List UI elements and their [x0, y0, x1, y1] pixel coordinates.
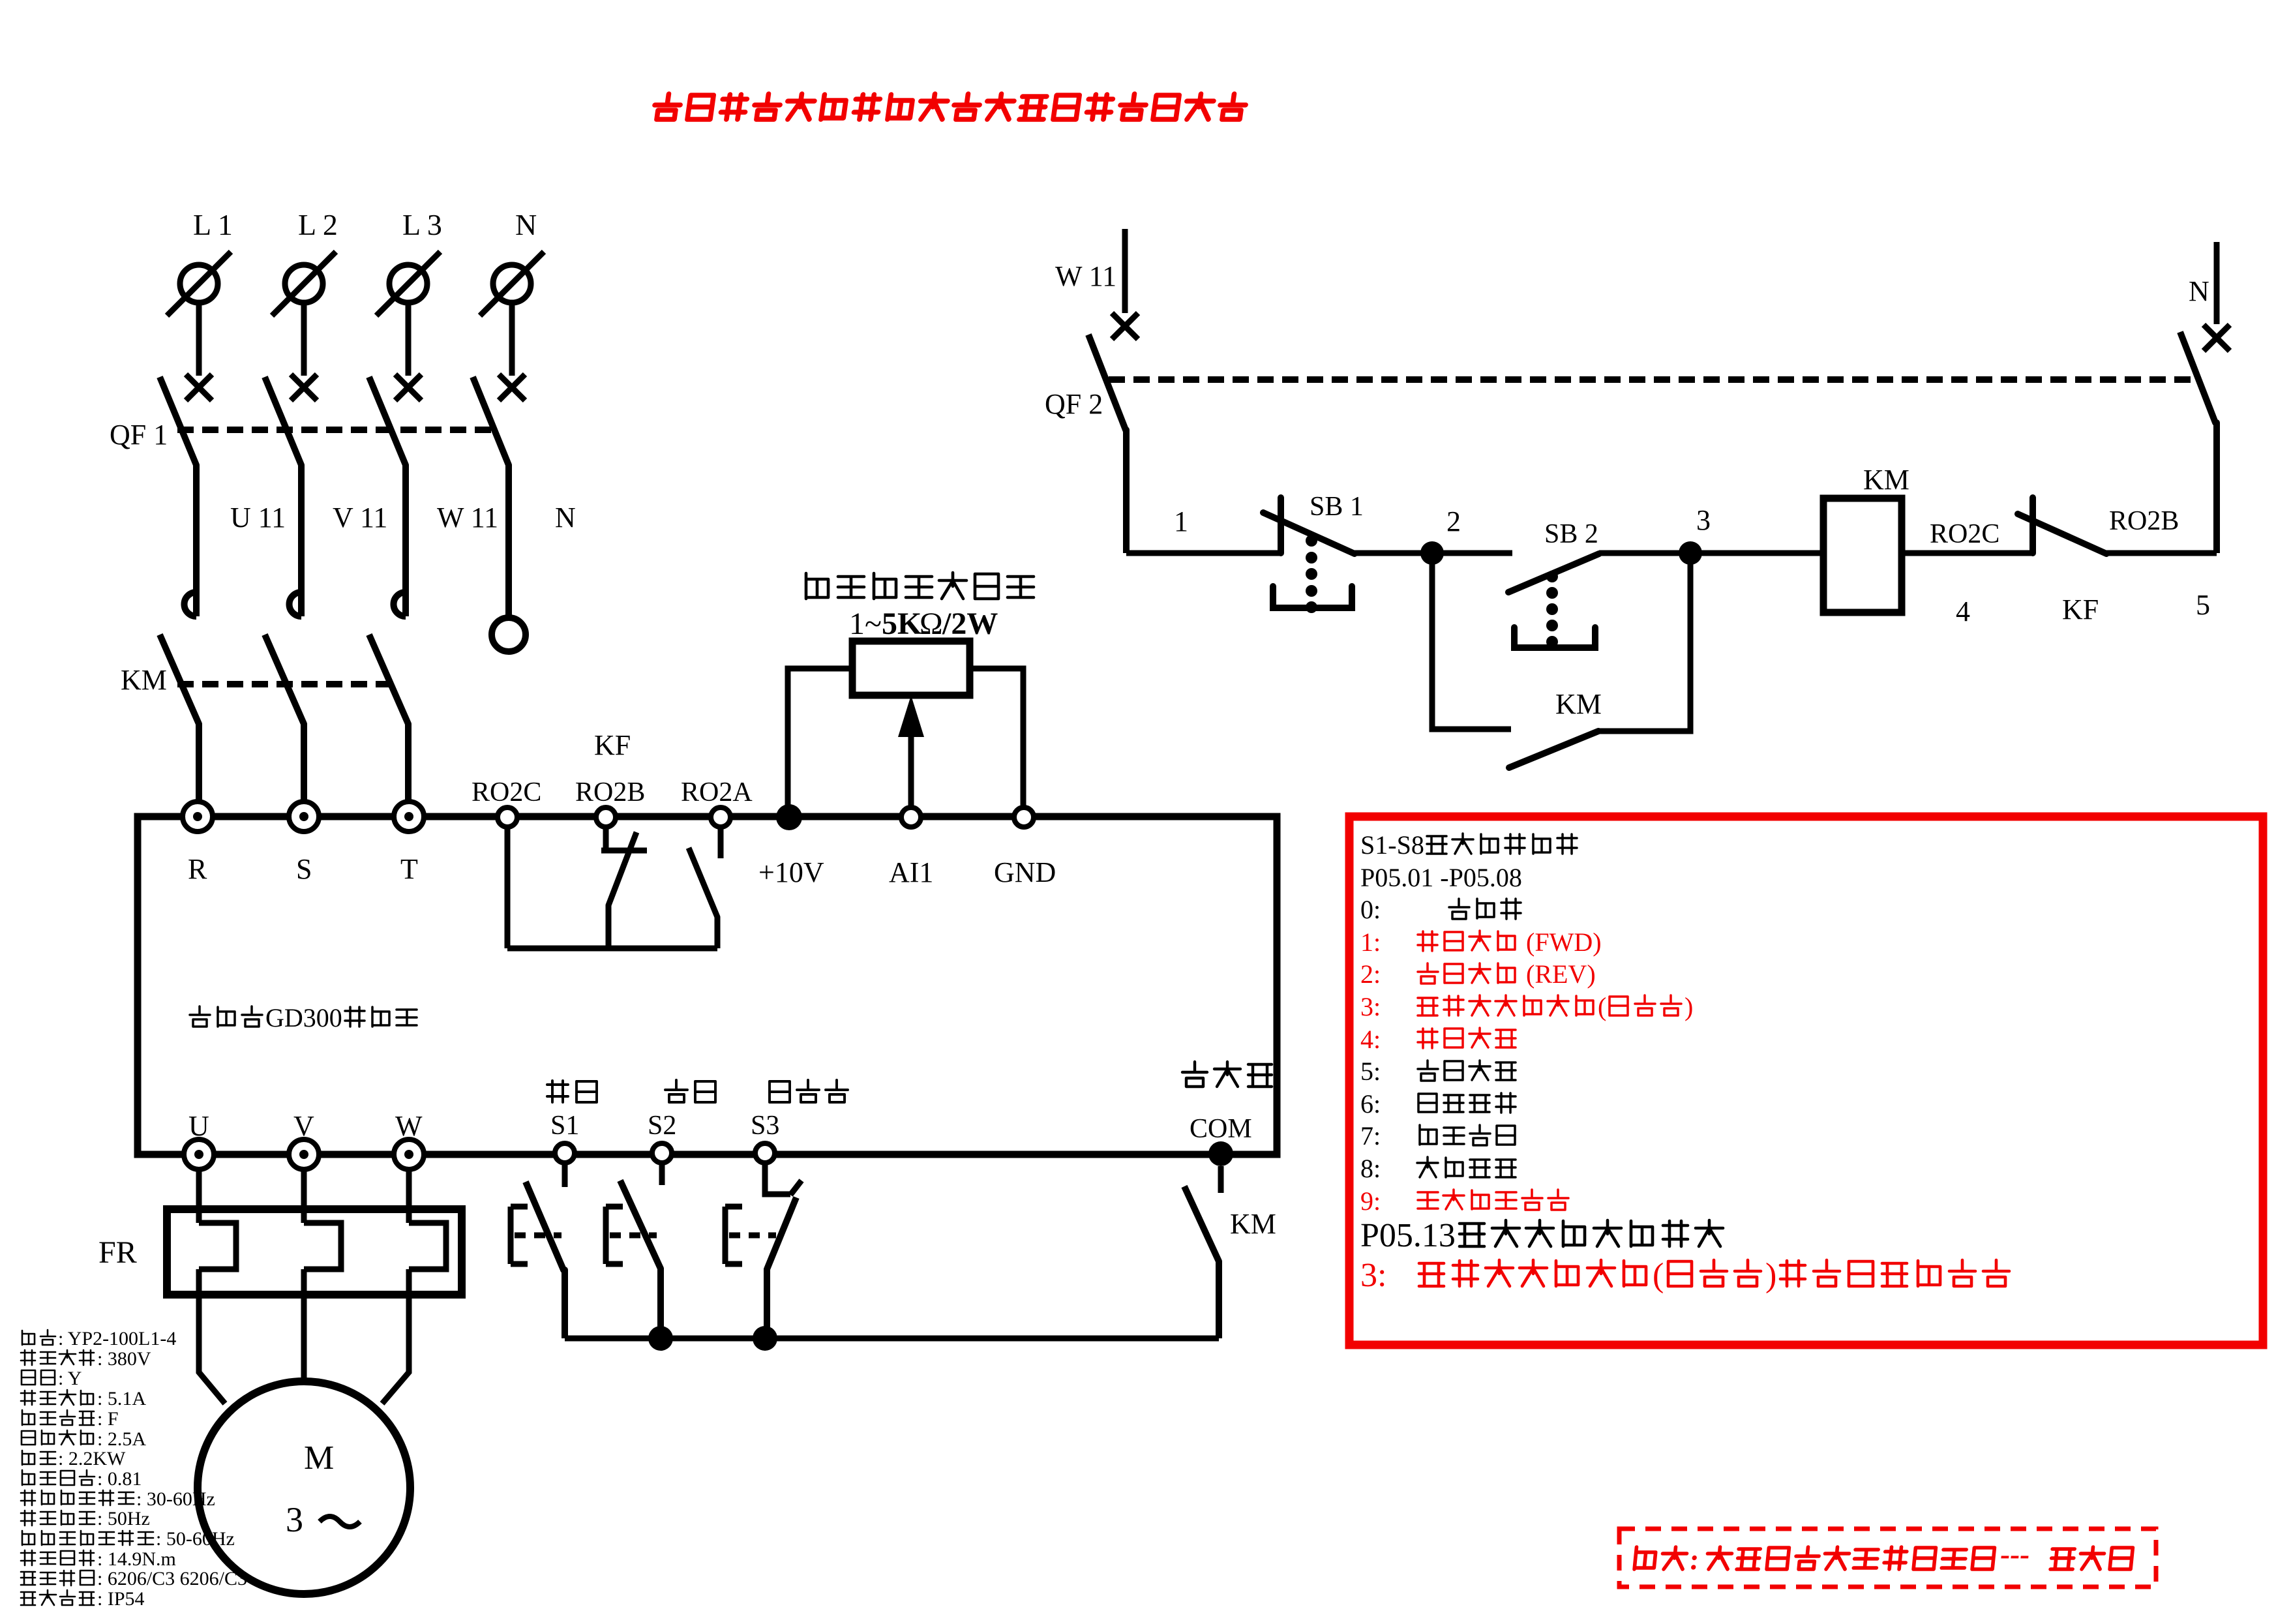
relay KF contact RO2C common [505, 827, 511, 948]
svg-text:: 380V: : 380V [97, 1348, 151, 1370]
svg-text:N: N [2189, 275, 2209, 307]
svg-text:QF 1: QF 1 [110, 419, 168, 451]
svg-text:T: T [400, 853, 418, 885]
svg-text:7:: 7: [1360, 1121, 1381, 1150]
wire KM aux to node3 [1598, 553, 1690, 731]
relay KF contact RO2A NO [718, 827, 724, 858]
svg-text:5: 5 [2196, 589, 2210, 621]
node 3 [1679, 541, 1702, 565]
wire N drop [509, 303, 515, 376]
svg-text:S1-S8: S1-S8 [1360, 830, 1424, 860]
svg-text:RO2A: RO2A [681, 777, 753, 807]
pot wiper arrow [908, 736, 914, 809]
svg-text:): ) [1685, 992, 1693, 1021]
red note box S1-S8 端子功能选择 [1349, 817, 2263, 1345]
wire V to motor [301, 1269, 307, 1381]
svg-text:1: 1 [1174, 505, 1188, 537]
QF1 linkage dashed [177, 427, 499, 433]
svg-text:U: U [188, 1110, 209, 1142]
pot right wire [970, 669, 1023, 809]
svg-text:KM: KM [1863, 464, 1909, 496]
potentiometer 频率设定电位器 [806, 573, 1034, 599]
svg-text:SB 1: SB 1 [1310, 492, 1364, 522]
QF1 pole hook 3 [394, 592, 406, 616]
svg-text:P05.01 -P05.08: P05.01 -P05.08 [1360, 863, 1522, 892]
terminal RO2A [711, 807, 730, 827]
switch S1 contact 正转 [562, 1162, 568, 1187]
svg-text:5:: 5: [1360, 1057, 1381, 1086]
QF1 pole hook 2 [290, 592, 302, 616]
svg-text:RO2B: RO2B [575, 777, 645, 807]
svg-text:4:: 4: [1360, 1025, 1381, 1054]
wire node3 to coil [1690, 550, 1823, 556]
wire L 3 drop [406, 303, 412, 376]
svg-text:M: M [304, 1439, 334, 1477]
terminal R [183, 802, 213, 832]
svg-text:+10V: +10V [758, 856, 824, 888]
svg-text:SB 2: SB 2 [1544, 519, 1598, 549]
terminal S2 [652, 1143, 672, 1163]
svg-text:RO2B: RO2B [2109, 506, 2179, 536]
svg-text:3: 3 [1696, 504, 1711, 536]
svg-text:: YP2-100L1-4: : YP2-100L1-4 [58, 1328, 176, 1349]
svg-text:L 1: L 1 [193, 208, 233, 241]
svg-text:1~: 1~ [849, 607, 882, 641]
svg-text:2:: 2: [1360, 959, 1381, 989]
svg-text:KM: KM [121, 664, 167, 696]
node 2 [1420, 541, 1444, 565]
svg-text:4: 4 [1956, 595, 1970, 627]
svg-text:: 2.5A: : 2.5A [97, 1428, 146, 1450]
svg-text:KF: KF [2062, 594, 2099, 625]
svg-text:COM: COM [1190, 1114, 1252, 1144]
svg-text:GND: GND [994, 856, 1056, 888]
motor M 3~ [198, 1381, 410, 1594]
wire L 1 drop [196, 303, 202, 376]
neutral socket circle [492, 618, 526, 652]
title 旋转开关控制变频调速电动机正反转电路 [653, 94, 1247, 119]
svg-text:N: N [515, 208, 537, 241]
svg-text:: 50Hz: : 50Hz [97, 1508, 150, 1529]
svg-text:: 2.2KW: : 2.2KW [58, 1448, 126, 1469]
svg-text:W 11: W 11 [1055, 260, 1116, 292]
svg-text:GD300: GD300 [265, 1003, 342, 1032]
wire SB2 to node3 [1599, 550, 1690, 556]
svg-text:QF 2: QF 2 [1045, 388, 1103, 420]
pot resistor body [852, 641, 970, 695]
svg-text:): ) [1765, 1257, 1776, 1294]
svg-text:: 14.9N.m: : 14.9N.m [97, 1548, 176, 1570]
svg-text:KF: KF [594, 729, 631, 761]
contact KF RO2C-RO2B NC [2029, 498, 2036, 553]
node S2 bottom [648, 1326, 673, 1351]
inverter box 英威腾GD300变频器 [138, 817, 1277, 1154]
QF1 contact X L 2 [291, 374, 317, 400]
svg-text:: 5.1A: : 5.1A [97, 1388, 146, 1409]
svg-text:(REV): (REV) [1520, 959, 1596, 989]
wire U to motor [199, 1269, 225, 1404]
svg-text:: 0.81: : 0.81 [97, 1468, 142, 1490]
terminal AI1 [901, 807, 921, 827]
terminal T [394, 802, 424, 832]
svg-text:KM: KM [1230, 1208, 1276, 1240]
svg-text:R: R [188, 853, 207, 885]
svg-text:8:: 8: [1360, 1154, 1381, 1183]
svg-text:V 11: V 11 [333, 502, 387, 534]
terminal +10V [776, 804, 802, 830]
svg-text:FR: FR [98, 1235, 137, 1270]
terminal GND [1014, 807, 1034, 827]
QF2 contact X right [2204, 325, 2230, 351]
svg-text:(: ( [1598, 992, 1606, 1021]
wire SB1 to node2 [1355, 550, 1432, 556]
svg-text:N: N [555, 502, 576, 534]
svg-text:AI1: AI1 [889, 856, 933, 888]
QF1 pole blade 4 [473, 377, 509, 618]
svg-text:S: S [296, 853, 312, 885]
breaker QF2 right pole [2180, 332, 2217, 553]
svg-text:2: 2 [1446, 505, 1461, 537]
terminal U [184, 1139, 214, 1169]
svg-text:5K: 5K [882, 607, 921, 641]
svg-text:V: V [293, 1110, 314, 1142]
QF1 pole blade 2 [265, 377, 301, 616]
svg-text:3:: 3: [1360, 1257, 1395, 1294]
wire coil to KF contact [1902, 550, 2033, 556]
QF1 pole blade 3 [369, 377, 406, 616]
QF1 contact X L 3 [395, 374, 421, 400]
terminal RO2C [498, 807, 517, 827]
svg-text:W: W [395, 1110, 423, 1142]
label 自保持 [770, 1080, 848, 1102]
label 正转 [547, 1081, 597, 1102]
terminal RO2B [596, 807, 616, 827]
FR heater element [196, 1169, 202, 1223]
FR heater element [406, 1169, 412, 1223]
FR heater element [301, 1169, 307, 1223]
svg-text:U 11: U 11 [230, 502, 286, 534]
svg-text:0:: 0: [1360, 895, 1381, 924]
svg-text:: 30-60Hz: : 30-60Hz [136, 1488, 215, 1510]
node S3 bottom [753, 1326, 777, 1351]
svg-text:1:: 1: [1360, 927, 1381, 957]
credit box 制图 大庆油田电力培训中心 于宝水 [1619, 1529, 2156, 1587]
svg-text:---: --- [1999, 1538, 2031, 1571]
wire L 2 drop [301, 303, 307, 376]
svg-text:RO2C: RO2C [472, 777, 541, 807]
svg-text:KM: KM [1555, 688, 1602, 720]
contact KM aux at COM [1218, 1166, 1224, 1193]
terminal COM [1208, 1141, 1233, 1166]
svg-text:9:: 9: [1360, 1186, 1381, 1216]
svg-text:(FWD): (FWD) [1520, 927, 1602, 957]
svg-text:: 6206/C3 6206/C3: : 6206/C3 6206/C3 [97, 1568, 247, 1589]
svg-text:Ω: Ω [920, 607, 943, 641]
terminal S1 [555, 1143, 575, 1163]
wire node2 down branch [1432, 553, 1511, 729]
svg-text:: F: : F [97, 1408, 119, 1430]
wire node2 to SB2 [1432, 550, 1512, 556]
bottom common rail wire [565, 1336, 1219, 1342]
svg-text:S3: S3 [751, 1111, 779, 1141]
svg-text:3:: 3: [1360, 992, 1381, 1021]
wire contact to N branch [2106, 550, 2217, 556]
svg-text:W 11: W 11 [437, 502, 498, 534]
label 反转 [665, 1080, 715, 1102]
svg-text:: 50-60Hz: : 50-60Hz [156, 1528, 235, 1550]
QF1 contact X L 1 [186, 374, 212, 400]
QF2 contact X left [1112, 313, 1138, 339]
wire W to motor [382, 1269, 409, 1404]
svg-text:/2W: /2W [942, 607, 998, 641]
label 公共端 [1182, 1062, 1272, 1087]
QF2 linkage dashed [1109, 376, 2194, 383]
svg-text:: IP54: : IP54 [97, 1588, 145, 1610]
wire node1 rail [1126, 550, 1281, 556]
svg-text:L 2: L 2 [298, 208, 338, 241]
QF1 pole hook 1 [185, 592, 196, 616]
svg-text:S2: S2 [648, 1111, 676, 1141]
svg-text:P05.13: P05.13 [1360, 1217, 1456, 1254]
svg-text:6:: 6: [1360, 1089, 1381, 1119]
svg-text:S1: S1 [550, 1111, 579, 1141]
QF1 contact X N [499, 374, 525, 400]
pot left wire [788, 669, 852, 817]
switch S3 contact 自保持 [765, 1162, 790, 1194]
QF1 pole blade 1 [160, 377, 196, 616]
svg-text::: : [1688, 1543, 1708, 1576]
terminal S3 [755, 1143, 775, 1163]
svg-text:L 3: L 3 [402, 208, 442, 241]
switch S2 contact 反转 [659, 1160, 665, 1185]
svg-text:3: 3 [286, 1500, 303, 1539]
terminal W [394, 1139, 424, 1169]
terminal V [289, 1139, 319, 1169]
relay KF contact RO2B NC [603, 827, 609, 850]
terminal S [289, 802, 319, 832]
svg-text:(: ( [1653, 1257, 1664, 1294]
svg-text:: Y: : Y [58, 1368, 82, 1389]
svg-text:RO2C: RO2C [1930, 519, 1999, 549]
